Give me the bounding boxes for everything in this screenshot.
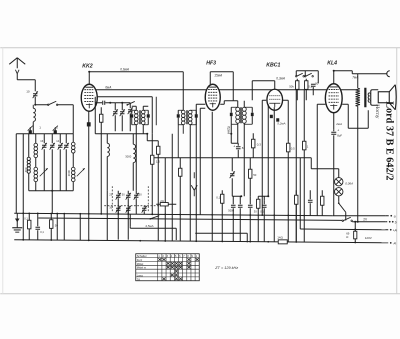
bus wire y215 right end [332, 215, 385, 217]
wire top x296-318 [296, 71, 318, 84]
switch on LT bus [149, 216, 159, 220]
wire x172 lower [171, 158, 173, 241]
wire KL4 left pin [317, 104, 325, 215]
bus C junction dots [22, 239, 356, 243]
svg-text:-A: -A [393, 241, 396, 245]
resistor x180 [179, 158, 182, 241]
padder trimmer D [126, 206, 131, 240]
wire KL4 cathode down [333, 113, 335, 130]
wire T0 down to y157 [177, 125, 179, 158]
padder trimmer C [116, 206, 121, 240]
wire KL4 anode link to transformer [348, 110, 368, 128]
switch contact P1 [296, 71, 305, 77]
bus wire y226 label segment [130, 224, 176, 240]
wire x231 down [230, 124, 232, 143]
resistor 50k upper [289, 79, 299, 101]
speaker magnet body [370, 90, 379, 106]
svg-text:0,3мА: 0,3мА [276, 76, 285, 80]
resistor x222 bottom [216, 190, 224, 241]
label 5.2mA KBC1 [277, 121, 285, 125]
wire x165 down [164, 158, 166, 241]
wire x147-158 link [147, 140, 158, 142]
cap right of T2 [244, 107, 253, 124]
wire KBC1 left pin [262, 100, 266, 215]
svg-text:+: + [337, 128, 339, 132]
osc transformer secondary coil [188, 110, 192, 241]
cap left of T2 [230, 107, 238, 124]
wire left vertical x16 [15, 134, 17, 214]
svg-text:3000: 3000 [125, 154, 131, 158]
svg-text:0,3: 0,3 [257, 142, 262, 146]
resistor 0.1M bottom left [24, 213, 31, 240]
bus wire y133 left [16, 133, 73, 135]
bus wire y233 segment [195, 233, 247, 242]
bus wire y229 right [300, 228, 385, 231]
wire HF3 right pin down [220, 101, 233, 105]
svg-text:0,1: 0,1 [24, 216, 28, 220]
wire x296 down [295, 89, 297, 242]
bus wire y157 [154, 157, 311, 159]
svg-text:0,6мА: 0,6мА [120, 67, 129, 71]
cap x233 bottom [228, 196, 235, 241]
wire x268 under KBC1 [267, 104, 269, 196]
junction dot KK2 grid line [88, 71, 90, 73]
label 2mA KL4 [335, 122, 342, 126]
coil 3000 mid x133 [125, 134, 135, 191]
trimmer tuning 4 [64, 134, 69, 191]
IF transformer T1 secondary coil [141, 110, 145, 134]
label 15mA [214, 73, 222, 77]
resistor 69ohm [346, 231, 357, 242]
vertical label 62mA [226, 126, 230, 134]
capacitor 0.1 bottom left [35, 213, 44, 240]
antenna [9, 58, 25, 74]
trimmer pair below KK2 [113, 103, 125, 132]
wire switch down [345, 212, 347, 220]
terminal row -A [390, 241, 396, 245]
wire T1 top feeds [132, 106, 149, 110]
terminal row a [385, 214, 396, 218]
label 30 cap bottom [254, 209, 257, 213]
IF transformer T2 secondary [242, 101, 246, 197]
wire KK2 to tuning drop [96, 97, 157, 134]
page edge top [0, 47, 400, 49]
bus wire LT [38, 218, 342, 220]
svg-text:1: 1 [307, 144, 309, 148]
label 7mA [352, 75, 358, 79]
speaker cone [389, 85, 396, 110]
wire x300 y229 from y157 [299, 158, 301, 229]
gang dashed horizontal [104, 205, 160, 207]
wire KBC1 cathode down [273, 107, 275, 242]
svg-text:5,2мА: 5,2мА [277, 121, 285, 125]
label KK2 [82, 63, 92, 69]
terminal row b [385, 220, 397, 224]
svg-text:2мА: 2мА [335, 122, 342, 126]
junction dot KL4 top [333, 70, 335, 72]
switch contact P2 [305, 71, 314, 77]
wire HF3 top cap [210, 72, 238, 101]
label 0.06A [345, 181, 353, 185]
ground symbol [12, 213, 22, 232]
T0 ties [178, 110, 196, 125]
tube KK2 [81, 84, 97, 111]
T1 left capacitor blob [130, 110, 133, 125]
page edge right [396, 48, 398, 294]
table X marks [158, 258, 198, 280]
IF transformer T1 primary coil [134, 110, 138, 134]
svg-text:14Ω: 14Ω [277, 235, 283, 239]
IF T1 core [139, 110, 140, 124]
gang dashed line vertical 1 [111, 186, 113, 212]
output transformer core bar [364, 88, 366, 108]
T1 right capacitor blob [147, 110, 150, 125]
svg-text:HF3: HF3 [206, 60, 216, 66]
svg-text:TA: TA [137, 277, 140, 281]
wire x88 bottom [88, 214, 90, 241]
svg-text:120V: 120V [365, 236, 372, 240]
label 2V [363, 217, 368, 221]
wire x147 down [146, 133, 148, 141]
IF transformer T2 primary [236, 101, 240, 144]
label 25 padder [109, 192, 112, 196]
cap x310 bottom [308, 190, 313, 215]
cap 8uF electrolytic [233, 143, 244, 158]
svg-text:15мА: 15мА [214, 73, 222, 77]
capacitor 2uF blob [53, 125, 59, 134]
bus A junction dots [22, 212, 305, 216]
svg-text:Ω: Ω [346, 235, 348, 239]
svg-text:ZT = 129 kHz: ZT = 129 kHz [214, 266, 238, 270]
label 16 trimmer [40, 139, 43, 143]
svg-text:a: a [394, 214, 396, 218]
label 6mA [105, 85, 111, 89]
svg-text:5000: 5000 [228, 208, 234, 212]
table texts [137, 254, 198, 281]
trimmer arrow osc right [77, 168, 85, 176]
switch lamps [338, 201, 346, 212]
svg-text:30: 30 [254, 209, 257, 213]
svg-text:Mittel m: Mittel m [137, 266, 147, 270]
capacitor 1uF blob [28, 125, 42, 134]
svg-text:Mittel: Mittel [137, 262, 144, 266]
label 14 trimmer [56, 139, 59, 143]
svg-text:10: 10 [26, 89, 30, 93]
bus wire bottom battery [14, 240, 388, 243]
label 120V [365, 236, 372, 240]
tube HF3 [205, 84, 220, 110]
tube KBC1 [267, 89, 283, 110]
svg-text:16: 16 [40, 139, 43, 143]
svg-text:8: 8 [242, 146, 244, 150]
table band switch grid [136, 254, 200, 281]
label HF3 [206, 60, 216, 66]
wire lamps to switch [338, 196, 340, 201]
resistor 2ohm horizontal [156, 199, 176, 206]
coil under KK2 x107 [107, 134, 109, 241]
svg-text:50k: 50k [289, 84, 294, 88]
wire x130 bottom [129, 214, 131, 227]
coil antenna input [33, 105, 35, 134]
wire trimmer to node [34, 97, 36, 106]
label 3000 coil rotated [67, 170, 71, 177]
note ZT 129 kHz [214, 266, 238, 270]
resistor 1.5M x152 [151, 134, 161, 215]
resistor x322 bottom [321, 190, 324, 215]
trimmer tuning 3 [58, 134, 63, 191]
resistor x296 bottom [295, 190, 298, 242]
IF T2 core [241, 107, 242, 123]
bus wire earth top [14, 213, 332, 215]
svg-text:6мА: 6мА [105, 85, 111, 89]
wire lamps top [311, 158, 339, 178]
coil oscillator right upper [71, 134, 75, 168]
gramophone input jack [191, 172, 197, 196]
wire x95 down to bus133 [94, 97, 96, 134]
KK2 grid coupling cap [95, 101, 130, 105]
page edge left [2, 48, 4, 294]
cap x252 bottom2 [248, 196, 253, 241]
svg-text:3000: 3000 [67, 170, 71, 177]
svg-text:0,1: 0,1 [260, 209, 264, 213]
wire antenna to trimmer [34, 80, 36, 92]
svg-text:Lord 37 B E 642/2: Lord 37 B E 642/2 [383, 101, 394, 180]
cap 8uF KL4 cathode [331, 128, 342, 215]
wire anode HT line 6mA [96, 89, 358, 91]
wire HF3 left pin down [196, 104, 205, 241]
svg-text:90: 90 [315, 81, 319, 85]
resistor 50k mid x250 [249, 158, 257, 197]
svg-text:8μF: 8μF [337, 133, 342, 137]
label 600 coil rotated [24, 167, 28, 172]
svg-text:Horny: Horny [374, 104, 380, 118]
svg-text:0,1: 0,1 [40, 230, 44, 234]
terminal arc top right [387, 71, 390, 77]
svg-text:KL4: KL4 [327, 60, 337, 66]
wire KL4 right pin [342, 104, 348, 128]
trimmer arrow osc left [40, 168, 48, 176]
T0 left capacitor blob [177, 110, 180, 125]
trimmer tuning 1 [42, 134, 47, 191]
switch into T1 [126, 101, 134, 105]
resistor x258 bottom [257, 196, 260, 242]
wire HF3 left pin2 [200, 108, 205, 214]
resistor 50k bottom left [50, 214, 59, 241]
bus wire y133 mid [95, 133, 147, 135]
wire to speaker terminal top [352, 71, 387, 74]
grid capacitor blob KK2 [87, 122, 91, 126]
wire antenna down [17, 74, 35, 80]
svg-text:62мА: 62мА [226, 126, 230, 134]
resistor 0.1M upper [305, 79, 313, 101]
coil aerial x35.5 upper [34, 134, 38, 168]
svg-text:50: 50 [122, 192, 125, 196]
wire x64 bottom [63, 214, 65, 241]
trimmer capacitor antenna [26, 89, 38, 98]
resistor x304 mid [303, 89, 309, 242]
svg-text:14: 14 [56, 139, 59, 143]
output transformer secondary coil [368, 93, 370, 103]
cap 90 upper [311, 81, 319, 95]
bus LT right segment [352, 221, 385, 223]
svg-text:4,5мА: 4,5мА [145, 224, 153, 228]
wire x57 bottom [56, 214, 58, 241]
brand text Horny [374, 104, 380, 118]
padder trimmer E [134, 191, 139, 215]
resistor 14ohm in bus [277, 235, 287, 244]
wire x231-238 link y143 [231, 142, 238, 144]
wire left vertical x23 [22, 134, 24, 240]
svg-text:+: + [233, 144, 235, 148]
wire KK2 cathode down [88, 111, 90, 214]
trimmer third below KK2 [128, 103, 133, 132]
padder trimmer A [116, 191, 121, 214]
wire x355 link [354, 221, 356, 232]
resistor under KK2 grid [100, 107, 103, 214]
trimmer mid x232 [230, 158, 235, 197]
speaker driver [378, 92, 389, 103]
wire KL4 top cap [334, 71, 353, 84]
coil oscillator left upper [27, 134, 30, 191]
wire x80 bottom [79, 214, 81, 241]
wire y196 link [232, 195, 242, 197]
resistor x158 [157, 141, 160, 241]
svg-text:Kurz: Kurz [137, 258, 143, 262]
KBC1 pin blobs [270, 115, 279, 122]
svg-text:600: 600 [24, 167, 28, 172]
wire field coil top [357, 74, 359, 89]
osc transformer primary coil [181, 110, 185, 134]
svg-text:0,5: 0,5 [291, 146, 295, 150]
svg-text:0,1: 0,1 [216, 195, 220, 199]
svg-text:0,06А: 0,06А [345, 181, 353, 185]
svg-text:KK2: KK2 [82, 63, 92, 69]
svg-text:+A: +A [393, 228, 397, 232]
wire HF3 cathode down [211, 112, 213, 242]
output transformer field winding [356, 88, 360, 223]
T1 ties [132, 110, 149, 125]
coil oscillator right lower [71, 167, 75, 191]
label 50 padder [122, 192, 125, 196]
svg-text:50: 50 [139, 192, 142, 196]
label 30 padder [109, 205, 112, 209]
svg-text:50: 50 [55, 223, 59, 227]
resistor x288 mid [287, 141, 296, 158]
label 50 padder2 [139, 192, 142, 196]
svg-text:b: b [395, 220, 397, 224]
label 0.3mA [276, 76, 285, 80]
dial lamp 1 [335, 178, 343, 186]
brand text Lord 37 B E 642/2 [383, 101, 394, 180]
osc transformer core [186, 110, 187, 124]
svg-text:Lang: Lang [137, 273, 143, 277]
coil aerial x35.5 lower [34, 167, 38, 191]
T0 right capacitor blob [195, 110, 198, 125]
svg-text:2Ω: 2Ω [160, 199, 164, 203]
padder trimmer B [126, 191, 131, 214]
cap x264 bottom [260, 200, 266, 242]
switch band antenna [35, 101, 73, 134]
terminal row +A [385, 228, 397, 232]
svg-text:2V: 2V [363, 217, 368, 221]
resistor 0.3M x253 [252, 133, 262, 158]
tube KL4 [325, 84, 342, 113]
svg-text:1: 1 [39, 125, 41, 129]
wire bottom tuning bus [29, 190, 74, 214]
wire x172 down [171, 134, 173, 158]
switch battery on bus [342, 217, 352, 221]
svg-text:KBC1: KBC1 [266, 62, 280, 68]
wire KBC1 top [252, 81, 275, 101]
wire x136 T1 down [135, 134, 137, 191]
page edge bottom [0, 293, 400, 295]
svg-text:50: 50 [253, 173, 257, 177]
wire x288 down [287, 158, 289, 242]
trimmer tuning 2 [50, 134, 55, 191]
wire KBC1 right pin [282, 100, 288, 141]
wire KK2 grid top line [89, 72, 183, 111]
cap x240 bottom [238, 196, 243, 241]
wire x258-264 link [258, 195, 269, 200]
gang dashed line vertical 2 [147, 186, 149, 212]
label 0.6mA [120, 67, 129, 71]
label KL4 [327, 60, 337, 66]
label KBC1 [266, 62, 280, 68]
dial lamp 2 [335, 188, 343, 196]
svg-text:Schalter: Schalter [137, 254, 147, 258]
padder trimmer F [142, 206, 147, 215]
wire x130 y228 up [129, 227, 131, 229]
